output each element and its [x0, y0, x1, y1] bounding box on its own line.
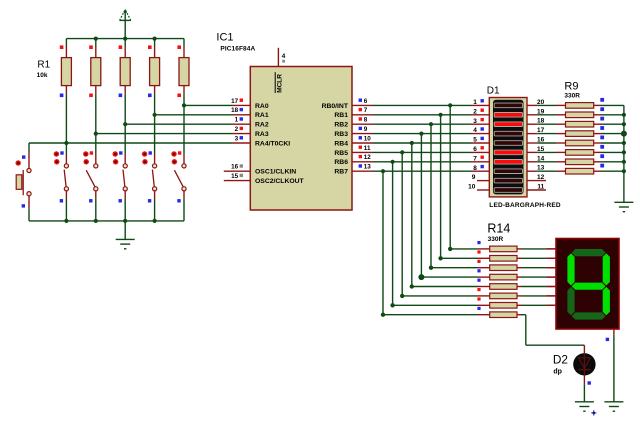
junction RB4 / drop wire — [410, 141, 414, 145]
svg-text:6: 6 — [364, 98, 368, 105]
svg-text:RB7: RB7 — [334, 169, 348, 176]
svg-text:D1: D1 — [487, 85, 500, 96]
ground symbol (R9 bus) — [614, 202, 633, 211]
wire RB3 drop to R14-4 — [421, 134, 489, 278]
junction RA2 / column — [123, 122, 127, 126]
svg-text:RB0/INT: RB0/INT — [322, 103, 349, 110]
bargraph D1 pin 3 number — [473, 118, 484, 125]
junction RB7 / drop wire — [381, 169, 385, 173]
bargraph D1 bar 1 (off) — [494, 103, 522, 108]
svg-text:9: 9 — [472, 174, 476, 181]
LED D2 — [573, 345, 595, 402]
display segment B (on) — [603, 253, 610, 285]
svg-text:17: 17 — [231, 98, 239, 105]
wire RA3 to switch column — [96, 133, 232, 135]
pin 6 RB0/INT (IC1 right) — [322, 98, 373, 110]
display segment pin row 5 — [546, 286, 556, 288]
svg-text:dp: dp — [553, 369, 562, 376]
value label PIC16F84A — [220, 46, 255, 53]
pin 9 RB3 (IC1 right) — [334, 126, 373, 138]
resistor R9 element 6 — [566, 145, 624, 155]
wire R14-7 to display segment pin — [522, 304, 556, 306]
display segment G (on) — [572, 283, 606, 290]
wire VCC top bus — [66, 38, 184, 40]
resistor R14 element 6 — [477, 288, 521, 299]
label D1 — [487, 85, 500, 96]
junction bend RB4 — [410, 284, 414, 288]
bargraph D1 pin 19 — [527, 108, 566, 115]
svg-text:RA3: RA3 — [255, 131, 269, 138]
bargraph D1 pin 10 (unconnected) — [468, 184, 489, 191]
wire ground bus — [29, 220, 184, 222]
svg-text:4: 4 — [282, 53, 286, 60]
value label dp — [553, 369, 562, 376]
svg-text:8: 8 — [473, 165, 477, 172]
IC IC1 PIC16F84A body — [250, 67, 352, 211]
display segment F (on) — [567, 253, 574, 285]
junction bend RB3 — [418, 274, 424, 280]
svg-text:12: 12 — [537, 174, 545, 181]
value label 330R (R14) — [488, 236, 504, 243]
wire R9 common bus — [623, 105, 625, 202]
svg-text:RA1: RA1 — [255, 112, 269, 119]
svg-text:13: 13 — [364, 164, 372, 171]
junction RB6 / drop wire — [391, 160, 395, 164]
resistor R14 element 1 — [477, 241, 521, 252]
value label LED-BARGRAPH-RED — [489, 202, 561, 209]
bargraph D1 bar 2 (on) — [494, 113, 522, 118]
wire R1-5 bottom to button 5 — [183, 94, 185, 164]
push button 6 (left, open) — [16, 152, 32, 221]
svg-text:330R: 330R — [564, 93, 580, 100]
wire R14-6 to display segment pin — [522, 295, 556, 297]
svg-text:RA0: RA0 — [255, 103, 269, 110]
svg-text:15: 15 — [537, 146, 545, 153]
push button 3 (closed) — [113, 151, 128, 221]
svg-text:IC1: IC1 — [216, 32, 233, 44]
bargraph D1 pin 13 — [527, 165, 566, 172]
wire RB7 to bargraph pin 8 — [373, 170, 489, 172]
svg-text:8: 8 — [364, 117, 368, 124]
wire RB1 drop to R14-2 — [441, 115, 490, 258]
bargraph D1 pin 16 — [527, 137, 566, 144]
bargraph D1 pin 1 number — [473, 99, 484, 106]
bargraph D1 pin 18 — [527, 118, 566, 125]
resistor R1 element 5 — [177, 39, 189, 98]
junction RB2 / drop wire — [429, 122, 433, 126]
wire RB5 drop to R14-6 — [402, 152, 490, 296]
pin 2 RA3 (IC1 left) — [232, 126, 269, 138]
svg-text:D2: D2 — [553, 352, 568, 366]
wire R1-3 bottom to button 3 — [124, 94, 126, 164]
display common pin to ground — [606, 329, 614, 402]
pin 15 OSC2/CLKOUT (IC1 left, unconnected) — [224, 173, 305, 185]
svg-text:4: 4 — [473, 127, 477, 134]
wire RB2 drop to R14-3 — [431, 124, 490, 268]
pin 4 MCLR (IC1 top) — [275, 48, 286, 93]
wire R14-2 to display segment pin — [522, 257, 556, 259]
svg-text:7: 7 — [473, 155, 477, 162]
svg-text:16: 16 — [537, 137, 545, 144]
junction R9 bus row 2 — [622, 113, 626, 117]
bargraph D1 pin 12 — [527, 174, 546, 181]
junction bend RB1 — [438, 256, 442, 260]
junction RA3 / column — [94, 132, 98, 136]
pin 3 RA4/T0CKI (IC1 left) — [232, 135, 290, 147]
svg-text:2: 2 — [473, 108, 477, 115]
bargraph D1 pin 15 — [527, 146, 566, 153]
ground symbol (switch bus) — [116, 221, 135, 249]
value label 330R (R9) — [564, 93, 580, 100]
pin 17 RA0 (IC1 left) — [231, 98, 269, 110]
bargraph D1 pin 17 — [527, 127, 566, 134]
junction R9 bus row 7 — [622, 160, 626, 164]
bargraph D1 bar 6 (on) — [494, 150, 522, 155]
svg-text:20: 20 — [537, 99, 545, 106]
wire RB0 drop to R14-1 — [450, 105, 490, 249]
wire RB1 to bargraph pin 2 — [373, 114, 489, 116]
resistor R1 element 4 — [148, 39, 160, 98]
svg-text:18: 18 — [231, 107, 239, 114]
svg-text:RB6: RB6 — [334, 159, 348, 166]
wire RA0 to switch column — [184, 104, 232, 106]
svg-text:12: 12 — [364, 154, 372, 161]
bargraph D1 pin 4 number — [473, 127, 484, 134]
display segment pin row 7 — [546, 304, 556, 306]
display segment pin row 1 — [546, 248, 556, 250]
origin marker — [591, 410, 596, 415]
display segment C (on) — [603, 287, 610, 315]
svg-text:RB4: RB4 — [334, 140, 348, 147]
svg-text:1: 1 — [473, 99, 477, 106]
svg-text:9: 9 — [364, 126, 368, 133]
bargraph D1 pin 11 — [527, 184, 546, 191]
bargraph D1 bar 3 (on) — [494, 122, 522, 127]
bargraph D1 pin 8 number — [473, 165, 484, 172]
bargraph D1 bar 5 (off) — [494, 141, 522, 146]
resistor R9 element 1 — [566, 98, 624, 108]
junction RB0 / drop wire — [448, 103, 452, 107]
svg-text:17: 17 — [537, 127, 545, 134]
svg-text:PIC16F84A: PIC16F84A — [220, 46, 255, 53]
push button 5 (open) — [171, 151, 186, 221]
svg-text:14: 14 — [537, 155, 545, 162]
resistor R14 element 7 — [477, 297, 521, 308]
svg-text:11: 11 — [364, 145, 371, 152]
wire RB6 to bargraph pin 7 — [373, 161, 489, 163]
wire RB4 to bargraph pin 5 — [373, 142, 489, 144]
push button 2 (open) — [83, 151, 98, 221]
pin 11 RB5 (IC1 right) — [334, 145, 373, 157]
pin 18 RA1 (IC1 left) — [231, 107, 269, 119]
ground symbol (LED D2) — [575, 402, 594, 411]
wire RA4 to switch column — [29, 143, 232, 152]
svg-text:RA2: RA2 — [255, 122, 269, 129]
junction ground bus / button 3 — [123, 219, 127, 223]
junction VCC bus / R1-4 — [153, 37, 157, 41]
wire RB4 drop to R14-5 — [412, 143, 490, 287]
resistor R14 element 5 — [477, 279, 521, 290]
resistor R14 element 3 — [477, 260, 521, 271]
ground symbol (display common) — [604, 402, 623, 411]
junction bend RB6 — [390, 303, 394, 307]
push button 1 (closed) — [54, 151, 69, 221]
junction RA4 / column — [64, 141, 68, 145]
pin 13 RB7 (IC1 right) — [334, 164, 373, 176]
svg-text:R1: R1 — [37, 60, 50, 71]
resistor R14 element 8 — [477, 307, 521, 318]
junction RB5 / drop wire — [400, 150, 404, 154]
wire R1-1 bottom to button 1 — [65, 94, 67, 164]
power symbol VCC — [120, 9, 131, 39]
svg-text:18: 18 — [537, 118, 545, 125]
svg-text:MCLR: MCLR — [277, 74, 284, 93]
display segment D (off) — [572, 312, 606, 319]
junction VCC bus / R1-2 — [94, 37, 98, 41]
wire RB5 to bargraph pin 6 — [373, 151, 489, 153]
junction ground bus / button 1 — [64, 219, 68, 223]
bargraph D1 pin 2 number — [473, 108, 484, 115]
bargraph D1 pin 6 number — [473, 146, 484, 153]
svg-text:R9: R9 — [564, 81, 578, 93]
bargraph D1 bar 4 (off) — [494, 131, 522, 136]
svg-text:OSC1/CLKIN: OSC1/CLKIN — [255, 169, 296, 176]
resistor R9 element 2 — [566, 107, 624, 117]
svg-text:16: 16 — [231, 164, 239, 171]
svg-text:RA4/T0CKI: RA4/T0CKI — [255, 140, 290, 147]
resistor R1 element 3 — [119, 39, 131, 98]
resistor R14 element 4 — [477, 269, 521, 280]
wire R14-5 to display segment pin — [522, 286, 556, 288]
label R9 — [564, 81, 578, 93]
display segment A (off) — [572, 249, 606, 256]
junction RB1 / drop wire — [439, 113, 443, 117]
bargraph D1 bar 10 (off) — [494, 188, 522, 193]
wire R1-4 bottom to button 4 — [154, 94, 156, 164]
svg-text:2: 2 — [235, 126, 239, 133]
svg-text:3: 3 — [235, 135, 239, 142]
bargraph D1 bar 9 (off) — [494, 178, 522, 183]
bargraph D1 pin 20 — [527, 99, 566, 106]
svg-text:RB2: RB2 — [334, 122, 348, 129]
junction R9 bus row 8 — [622, 169, 626, 173]
pin 10 RB4 (IC1 right) — [334, 135, 373, 147]
svg-text:RB1: RB1 — [334, 112, 348, 119]
7-segment display body — [556, 239, 619, 330]
svg-text:10: 10 — [364, 135, 372, 142]
label IC1 — [216, 32, 233, 44]
label D2 — [553, 352, 568, 366]
bargraph D1 pin 14 — [527, 155, 566, 162]
value label 10k — [37, 72, 48, 79]
junction ground bus / button 2 — [94, 219, 98, 223]
svg-text:10k: 10k — [37, 72, 48, 79]
svg-text:OSC2/CLKOUT: OSC2/CLKOUT — [255, 178, 305, 185]
junction R9 bus row 6 — [622, 150, 626, 154]
pin 8 RB2 (IC1 right) — [334, 117, 373, 129]
svg-text:RB3: RB3 — [334, 131, 348, 138]
resistor R9 element 5 — [566, 136, 624, 146]
svg-text:15: 15 — [231, 173, 239, 180]
resistor R9 element 4 — [566, 126, 624, 136]
display segment pin row 2 — [546, 257, 556, 259]
wire R14-8 to LED D2 — [522, 315, 585, 346]
bargraph D1 bar 8 (off) — [494, 169, 522, 174]
wire R14-3 to display segment pin — [522, 267, 556, 269]
junction VCC bus / R1-3 / power stem — [123, 37, 127, 41]
svg-text:10: 10 — [468, 184, 476, 191]
wire RB6 drop to R14-7 — [393, 162, 490, 305]
wire R14-4 to display segment pin — [522, 276, 556, 278]
pin 1 RA2 (IC1 left) — [232, 117, 269, 129]
wire RB0 to bargraph pin 1 — [373, 104, 489, 106]
junction bend RB0 — [448, 247, 452, 251]
svg-text:R14: R14 — [487, 222, 510, 236]
junction RB3 / drop wire — [419, 132, 423, 136]
resistor R9 element 3 — [566, 117, 624, 127]
junction bend RB5 — [400, 294, 404, 298]
display segment pin row 3 — [546, 267, 556, 269]
junction R9 bus row 5 — [622, 141, 626, 145]
svg-text:7: 7 — [364, 107, 368, 114]
display segment E (off) — [567, 287, 574, 315]
svg-text:19: 19 — [537, 108, 545, 115]
wire R1-2 bottom to button 2 — [95, 94, 97, 164]
resistor R1 element 1 — [60, 39, 72, 98]
junction R9 bus row 3 — [622, 122, 626, 126]
wire RB3 to bargraph pin 4 — [373, 133, 489, 135]
bargraph D1 pin 9 (unconnected) — [472, 174, 490, 181]
svg-text:1: 1 — [235, 117, 239, 124]
bargraph D1 bar 7 (on) — [494, 160, 522, 165]
junction RA1 / column — [153, 113, 157, 117]
push button 4 (closed) — [142, 151, 157, 221]
junction ground bus / button 4 — [153, 219, 157, 223]
svg-text:13: 13 — [537, 165, 545, 172]
svg-text:RB5: RB5 — [334, 150, 348, 157]
pin 7 RB1 (IC1 right) — [334, 107, 373, 119]
junction bend RB2 — [429, 266, 433, 270]
display segment pin row 4 — [546, 276, 556, 278]
junction RA0 / column — [182, 103, 186, 107]
resistor R1 element 2 — [89, 39, 101, 98]
bargraph D1 pin 5 number — [473, 137, 484, 144]
display segment pin row 6 — [546, 295, 556, 297]
resistor R14 element 2 — [477, 250, 521, 261]
resistor R9 element 8 — [566, 164, 624, 174]
wire RB2 to bargraph pin 3 — [373, 123, 489, 125]
svg-text:5: 5 — [473, 137, 477, 144]
junction bend RB7 — [381, 313, 385, 317]
svg-text:6: 6 — [473, 146, 477, 153]
bargraph D1 pin 7 number — [473, 155, 484, 162]
label R14 — [487, 222, 510, 236]
wire RB7 drop to R14-8 — [383, 171, 490, 315]
pin 16 OSC1/CLKIN (IC1 left, unconnected) — [224, 164, 296, 176]
pin 12 RB6 (IC1 right) — [334, 154, 373, 166]
svg-text:11: 11 — [537, 184, 544, 191]
svg-text:330R: 330R — [488, 236, 504, 243]
wire RA1 to switch column — [155, 114, 232, 116]
svg-text:3: 3 — [473, 118, 477, 125]
junction R9 bus row 4 — [621, 131, 627, 137]
resistor R9 element 7 — [566, 154, 624, 164]
svg-text:LED-BARGRAPH-RED: LED-BARGRAPH-RED — [489, 202, 561, 209]
LED bargraph D1 body — [489, 98, 527, 197]
wire R14-1 to display segment pin — [522, 248, 556, 250]
label R1 — [37, 60, 50, 71]
wire RA2 to switch column — [125, 123, 232, 125]
